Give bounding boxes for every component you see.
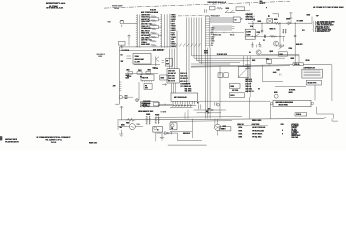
DC module box (140, 102, 158, 107)
wire mid (261, 54, 299, 56)
unit box top edge second line (119, 50, 163, 52)
motor circle B630 (274, 94, 278, 98)
svg-text:SEE NOTE 3: SEE NOTE 3 (97, 54, 106, 56)
wire G601 right (135, 126, 143, 128)
diode CR630 (286, 20, 291, 25)
svg-text:V601: V601 (126, 75, 130, 77)
transformer T630 (283, 29, 285, 33)
svg-text:Z=50: Z=50 (273, 72, 277, 74)
cap C629 on drop (261, 29, 263, 31)
svg-text:K603: K603 (258, 21, 262, 23)
boundary line tee drop (248, 3, 250, 6)
arrow into junction box (162, 84, 167, 86)
svg-text:P: P (266, 8, 267, 10)
svg-text:E1: E1 (249, 52, 251, 54)
relay K603 box with cross (267, 19, 273, 23)
svg-text:R639: R639 (291, 58, 295, 60)
wire E603 down to bus (121, 110, 123, 120)
top strip cluster verticals (247, 13, 249, 18)
top strip small box (210, 7, 216, 10)
main ground bus (118, 119, 324, 120)
wire antenna to J601 (124, 23, 138, 25)
ground under oscillator (119, 130, 123, 137)
svg-text:SHIELD GRD: SHIELD GRD (252, 120, 262, 122)
svg-text:TB33: TB33 (221, 129, 225, 131)
svg-text:W210: W210 (306, 60, 310, 62)
svg-text:MIC HI LO: MIC HI LO (180, 81, 188, 83)
svg-text:TO TUNE: TO TUNE (297, 21, 304, 23)
svg-text:28V: 28V (121, 61, 124, 63)
vertical right x315 (314, 85, 316, 100)
svg-text:MIC HI LO: MIC HI LO (245, 81, 253, 83)
signal arrow line 1 (194, 109, 227, 111)
wire inverter to relay (157, 132, 178, 134)
svg-text:R630: R630 (274, 19, 278, 21)
cable elbow wire 2 (193, 18, 195, 59)
svg-text:HF COMM SYSTEM SCHEM DIAG: HF COMM SYSTEM SCHEM DIAG (313, 6, 344, 9)
upper return line (156, 116, 242, 119)
svg-text:R632 1K: R632 1K (270, 29, 276, 31)
svg-text:SEE WDM 23-11-01: SEE WDM 23-11-01 (46, 8, 63, 10)
stub down from row 36 (283, 36, 285, 41)
drop wire far left of right section (248, 97, 250, 119)
main wire right section (248, 22, 312, 24)
control box left (245, 29, 255, 39)
svg-text:23-11-0: 23-11-0 (51, 142, 56, 144)
svg-text:E402 GND: E402 GND (141, 44, 150, 46)
svg-text:GRD: GRD (252, 60, 255, 62)
L mark right end (332, 119, 338, 122)
svg-text:S1: S1 (254, 19, 256, 21)
svg-text:C612: C612 (138, 70, 142, 72)
junction dots row 36 (252, 36, 253, 37)
right edge long vertical (331, 65, 333, 101)
svg-text:E601: E601 (108, 22, 112, 24)
svg-text:L604: L604 (126, 70, 130, 72)
capacitor C630 (263, 35, 265, 38)
wire bundle band lower (212, 25, 232, 27)
wire G601 left (118, 126, 129, 128)
capacitor row C210-C218 (172, 104, 174, 106)
svg-text:MIC HI LO: MIC HI LO (168, 81, 176, 83)
filter T601 cluster (146, 116, 148, 125)
receiver module box C (150, 34, 159, 37)
ticks near motor circle (214, 102, 216, 105)
zone bracket (273, 14, 279, 17)
svg-text:SQL DISC: SQL DISC (185, 91, 193, 93)
antenna E603 marker (120, 106, 123, 110)
unit left-edge bracket ticks (119, 81, 121, 83)
svg-text:W202: W202 (99, 56, 103, 58)
junction strip end circles (270, 102, 272, 104)
svg-text:8: 8 (282, 134, 283, 136)
static inverter circle (154, 127, 157, 130)
receiver module box B (150, 26, 159, 29)
wire drop right of inverter (177, 133, 179, 141)
wire bend up left (262, 65, 264, 82)
oscillator G601 circle (129, 124, 135, 130)
svg-text:FL602: FL602 (155, 114, 159, 116)
svg-text:H22B: H22B (238, 130, 242, 132)
long feeder line second (191, 66, 290, 67)
module box phase det (144, 84, 152, 90)
secondary bus (170, 120, 232, 123)
svg-text:HF KEY INTLK: HF KEY INTLK (252, 134, 262, 136)
svg-text:C604: C604 (211, 28, 215, 30)
variable capacitor C635 (278, 44, 284, 50)
svg-text:FWD EQUIP SHELF E-3: FWD EQUIP SHELF E-3 (208, 2, 227, 4)
top strip resistor (217, 7, 223, 9)
svg-text:TUNE: TUNE (135, 56, 139, 58)
boundary line (station break) (104, 1, 290, 8)
pa module box with pins (141, 75, 154, 81)
svg-text:E2: E2 (258, 89, 260, 91)
vertical from main wire (279, 23, 281, 47)
bus end tick (323, 117, 326, 118)
svg-text:CR630: CR630 (286, 19, 291, 21)
svg-text:C617: C617 (153, 67, 157, 69)
unit box bottom-left hook (115, 103, 119, 105)
verticals from connector stack (246, 56, 248, 93)
svg-text:MUTE: MUTE (289, 92, 293, 94)
relay K201 box (171, 93, 198, 101)
breaker box CB601 (170, 123, 177, 130)
dropper vertical 2 (205, 48, 207, 119)
svg-text:R602 470: R602 470 (185, 86, 192, 88)
wire under breaker (170, 130, 192, 132)
svg-text:PH: PH (145, 85, 147, 87)
svg-text:FLIGHT COMPT: FLIGHT COMPT (112, 5, 123, 7)
svg-text:H24B: H24B (238, 137, 242, 139)
svg-text:J5: J5 (241, 18, 243, 20)
fuse F201 (218, 73, 222, 78)
svg-text:GRD BUS: GRD BUS (183, 133, 190, 135)
left edge connector stack (245, 64, 251, 66)
receiver unit pin ticks (160, 14, 161, 16)
antenna E602 sense (128, 35, 131, 39)
wire DC box to cap row (159, 103, 173, 105)
svg-text:R640 2K2: R640 2K2 (296, 44, 303, 46)
capacitor C601 feedthru (119, 42, 126, 46)
wire M601 (123, 96, 134, 98)
svg-text:28V: 28V (113, 86, 116, 88)
wire row mid right (245, 35, 285, 37)
long vertical right of section (294, 23, 296, 65)
svg-text:C9: C9 (121, 54, 123, 56)
pa module pins (142, 81, 144, 83)
svg-text:KEY LINE: KEY LINE (168, 76, 175, 78)
legend header rule (237, 125, 268, 127)
svg-text:470: 470 (211, 32, 214, 34)
svg-text:K901 COIL: K901 COIL (246, 16, 254, 18)
svg-text:1K2: 1K2 (211, 43, 214, 45)
vertical drop x312 (311, 17, 313, 24)
unit right-edge module box (166, 59, 173, 67)
svg-text:SEE: SEE (260, 1, 263, 3)
wire mid drop (298, 55, 300, 64)
ground below C601 (120, 45, 123, 49)
svg-text:TP1: TP1 (302, 30, 305, 32)
svg-text:8: 8 (282, 130, 283, 132)
dropper vertical 4 (209, 48, 211, 119)
vertical drop to meter box (243, 56, 245, 67)
dropper vertical 5 with junction (219, 66, 221, 119)
top strip connecting wire (236, 10, 250, 12)
capacitor C632 to ground (259, 42, 261, 44)
svg-text:TO INTPH SYS: TO INTPH SYS (217, 54, 227, 56)
svg-text:CR4 1N21: CR4 1N21 (168, 71, 175, 73)
svg-text:DET: DET (145, 88, 148, 90)
filter box FL630 (302, 69, 322, 78)
meter box with diagonal (238, 67, 249, 78)
svg-text:A1 CPLR: A1 CPLR (122, 49, 130, 52)
dropper vertical 3 (207, 48, 209, 119)
svg-text:C604: C604 (211, 41, 215, 43)
svg-text:EFFECTIVITY: ALL: EFFECTIVITY: ALL (46, 2, 66, 5)
hatch under capacitor row (172, 106, 174, 108)
unit right rail cluster (169, 49, 171, 69)
svg-text:CB: CB (171, 128, 173, 130)
junction box J201 (167, 69, 179, 83)
wire row below bands (210, 32, 244, 34)
signal arrow line 2 (197, 112, 222, 114)
svg-text:P102-8: P102-8 (294, 64, 299, 66)
svg-text:C601 .01: C601 .01 (245, 86, 251, 88)
svg-text:TO GEN: TO GEN (161, 112, 167, 114)
wire module B to rail (159, 26, 162, 28)
svg-text:RLY: RLY (166, 63, 169, 65)
bus bend horizontals (192, 55, 300, 57)
fuse F202 (224, 73, 228, 78)
relay K601 contact cluster (155, 57, 157, 67)
connector strip pins (205, 16, 210, 18)
svg-text:RG-58: RG-58 (230, 34, 234, 36)
wire bundle band upper (210, 16, 233, 18)
wire module A to rail (159, 18, 162, 20)
cable elbow wire 3 (196, 18, 198, 61)
annunciator box (306, 80, 321, 85)
svg-text:CR4 1N21: CR4 1N21 (168, 78, 175, 80)
svg-text:28V COIL: 28V COIL (232, 90, 239, 92)
wire module C to rail (159, 35, 162, 37)
switch S630 (254, 34, 259, 38)
section mark I-beam (289, 13, 292, 18)
junction strip box (273, 100, 311, 106)
svg-text:C604: C604 (211, 36, 215, 38)
filter T602 cluster (155, 117, 157, 125)
svg-text:TO RCVR: TO RCVR (289, 90, 295, 92)
wire under inner box (134, 64, 160, 66)
svg-text:SQL DISC: SQL DISC (180, 76, 188, 78)
capacitor pair above Q631 (256, 45, 258, 48)
junction dots main wire (279, 23, 280, 24)
svg-text:T601 RF: T601 RF (185, 84, 191, 86)
antenna E601 (120, 20, 124, 26)
wire mid horizontal 2 (275, 86, 306, 88)
top strip switch cluster (225, 10, 235, 13)
svg-text:TB2: TB2 (234, 20, 237, 22)
wire inverter stub down (155, 132, 157, 141)
connector J601 pins (136, 14, 137, 16)
long feeder line to right section (191, 64, 332, 66)
svg-text:TYP: TYP (316, 15, 319, 17)
utility box bottom middle (220, 127, 231, 131)
svg-text:FL601: FL601 (146, 114, 150, 116)
svg-text:K602: K602 (223, 126, 227, 128)
junction dot feeder (298, 64, 299, 65)
cable group 2 verticals (186, 18, 188, 85)
feeder label box P102 (293, 63, 303, 66)
svg-text:S201: S201 (226, 8, 230, 10)
left drop wire (117, 121, 119, 130)
svg-text:B630: B630 (274, 92, 277, 94)
top strip L marks (204, 9, 206, 12)
ground G bottom-left (160, 134, 164, 140)
component circle M601 (119, 96, 122, 99)
unit box left edge (118, 47, 120, 104)
svg-text:INV: INV (120, 127, 123, 129)
wire along bottom (178, 140, 202, 142)
svg-text:RF: RF (211, 45, 213, 47)
relay K602 leads (217, 119, 219, 125)
transistor Q631 (256, 50, 261, 55)
receiver unit mid component marks (151, 16, 157, 18)
svg-text:W206: W206 (204, 51, 208, 53)
svg-text:Q631: Q631 (270, 51, 274, 53)
svg-text:INTLK: INTLK (230, 95, 234, 97)
svg-text:B+ 28V: B+ 28V (135, 61, 141, 63)
schematic baseline segment (168, 144, 207, 146)
discriminator parts row (128, 72, 133, 75)
cap C640 near vertical (294, 35, 296, 37)
arrow line drop 2 (187, 110, 189, 119)
vertical drop x253 (252, 23, 254, 29)
svg-text:C2: C2 (263, 40, 265, 42)
inner module box coupler control (133, 54, 151, 65)
receiver unit rail 1 (161, 14, 163, 47)
svg-text:C641: C641 (277, 70, 281, 72)
static inverter box (153, 127, 163, 133)
ticks on wire row (215, 32, 217, 34)
connector stub marks near P (198, 104, 200, 109)
arrow line drop 1 (184, 112, 186, 119)
wire capacitor row bus (170, 106, 193, 108)
receiver unit rail 4 (169, 14, 171, 47)
svg-text:470 UUF: 470 UUF (245, 84, 251, 86)
svg-text:TP2: TP2 (266, 59, 269, 61)
svg-text:FIG. 5 (SHEET 1 OF 2): FIG. 5 (SHEET 1 OF 2) (45, 140, 62, 142)
notes list bracket (312, 22, 315, 33)
relay box K605 (229, 93, 244, 98)
cable elbow wire 4 (198, 18, 200, 63)
svg-text:DC MODULE: DC MODULE (141, 103, 150, 105)
svg-text:RF: RF (166, 61, 168, 63)
svg-text:SQL DISC: SQL DISC (245, 88, 252, 90)
svg-text:P4: P4 (197, 102, 199, 104)
motor circle bottom (217, 104, 220, 107)
svg-text:K604: K604 (230, 86, 234, 88)
cable elbow wire 5 (201, 18, 203, 65)
svg-text:HF SQL GRD: HF SQL GRD (252, 137, 262, 139)
relay K606 small box (267, 60, 272, 64)
dash line second segment (178, 15, 212, 17)
svg-text:S630: S630 (307, 15, 311, 17)
diode CR602 (165, 131, 172, 134)
svg-text:C628: C628 (257, 32, 261, 34)
wire E602 down (128, 39, 130, 46)
vertical feed inside unit (138, 82, 140, 100)
connector J601 shell (136, 15, 138, 48)
lamp DS601 circle (136, 99, 139, 102)
small bits near bottom cluster (154, 103, 160, 106)
unit box top edge (119, 46, 176, 48)
wire parts row (125, 72, 158, 74)
wire label box P103 (295, 113, 307, 116)
wires junction box to relay (171, 83, 173, 93)
bias box (279, 52, 288, 56)
receiver module box A (150, 18, 159, 21)
wire right of strip down (316, 107, 318, 114)
cable elbow wire 1 (191, 18, 193, 56)
dropper vertical 1 (191, 119, 193, 138)
band lower end marks (232, 26, 235, 28)
svg-text:115V: 115V (137, 124, 140, 126)
transistor Q630 (274, 41, 279, 46)
wire below relay (158, 105, 196, 107)
svg-text:G601: G601 (121, 125, 125, 127)
svg-text:Q204 PNP: Q204 PNP (246, 14, 253, 16)
relay box K604 (229, 84, 240, 89)
resistor R630 (274, 22, 281, 25)
resistor R620 on bus (126, 118, 136, 121)
svg-text:6. SEE WDM 23-11-11: 6. SEE WDM 23-11-11 (315, 31, 330, 33)
connector strip P201 shell (204, 16, 206, 48)
relay K602 circle (215, 124, 221, 130)
wire left of strip (269, 104, 271, 119)
relay K201 pins (172, 101, 174, 104)
svg-text:R611: R611 (148, 69, 152, 71)
wire relay area to changeover panel (198, 100, 271, 102)
relay K606 stub (268, 63, 270, 66)
top strip relay box (236, 7, 245, 11)
svg-text:R602 470: R602 470 (245, 79, 251, 81)
svg-text:R602 470: R602 470 (180, 73, 187, 75)
cable group 1 extra vertical (176, 31, 178, 69)
binder edge mark (0, 136, 2, 140)
tick pair near Z label (279, 74, 281, 76)
receiver unit rail 2 (163, 14, 165, 47)
svg-text:6146: 6146 (126, 78, 130, 80)
terminal box TB201 (233, 17, 240, 22)
svg-text:R620: R620 (126, 122, 130, 124)
aux box right (160, 75, 168, 80)
cable group hatch marks (176, 44, 178, 47)
receiver unit rail 3 (166, 14, 168, 47)
capacitor C631 to ground (252, 42, 254, 44)
svg-text:C635: C635 (289, 48, 293, 50)
ticks near inner box (127, 55, 132, 57)
svg-text:P103-4: P103-4 (296, 114, 301, 116)
vertical drop x262 (261, 23, 263, 33)
leads to utility box (214, 119, 216, 127)
svg-text:SQL DISC: SQL DISC (185, 88, 193, 90)
svg-text:NOTE 2: NOTE 2 (260, 3, 266, 5)
resistor R631 (270, 35, 276, 37)
breaker circle (171, 124, 174, 127)
